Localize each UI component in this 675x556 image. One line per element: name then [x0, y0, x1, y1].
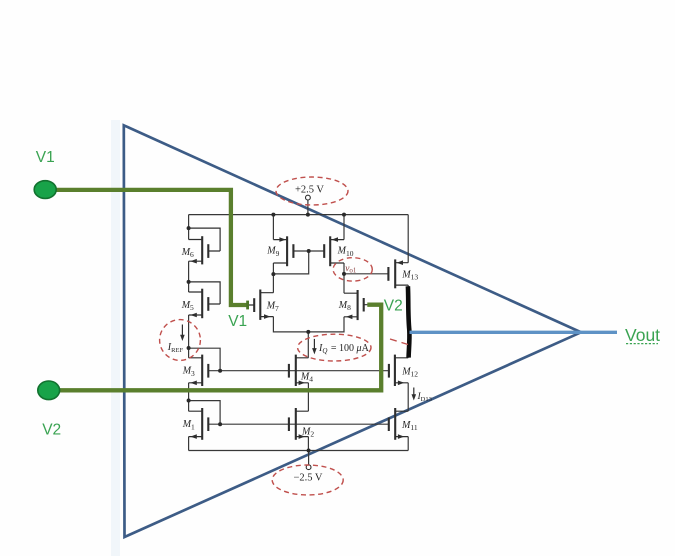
transistor M13: [388, 259, 408, 288]
node gate rail 2: [218, 422, 222, 426]
svg-text:IQ = 100 μA: IQ = 100 μA: [318, 343, 370, 355]
transistor M7: [240, 290, 273, 320]
node tail: [306, 330, 310, 334]
wire vo1 node to M13 gate: [344, 273, 388, 275]
wire M12 source to M11 drain: [407, 383, 409, 411]
transistor M4: [289, 355, 309, 386]
annotation dashes at output node: [390, 339, 408, 345]
background tint strip left of triangle: [111, 120, 120, 556]
wire M13 drain to M12 drain: [407, 285, 409, 358]
transistor M5: [189, 282, 221, 318]
wire M9 M10 gate link: [293, 250, 324, 252]
wire gate rail M3 M4 M12: [208, 370, 389, 372]
wire M3 diode connection: [189, 348, 221, 371]
node rail M9: [271, 213, 275, 217]
wire top +V rail: [189, 214, 409, 216]
transistor M2: [289, 408, 309, 440]
transistor M3: [189, 355, 209, 386]
wire gate rail M1 M2 M11: [208, 423, 388, 425]
svg-text:M9: M9: [266, 246, 279, 258]
annotation ellipse -2.5V: [272, 465, 343, 495]
svg-text:V2: V2: [42, 422, 61, 439]
svg-text:V1: V1: [36, 149, 55, 166]
node M1 diode: [187, 399, 191, 403]
svg-text:M10: M10: [337, 246, 354, 258]
svg-text:M12: M12: [401, 366, 418, 378]
wire M9 source drop: [272, 215, 274, 240]
current arrow ID13: [412, 388, 417, 401]
transistor M1: [189, 408, 209, 440]
svg-text:M1: M1: [182, 419, 195, 431]
node mirror gates: [307, 249, 311, 253]
wire M10 source drop: [343, 215, 345, 240]
svg-text:M2: M2: [301, 426, 314, 438]
wire differential tail: [273, 317, 344, 332]
terminal V1: [34, 181, 56, 199]
op-amp triangle symbol: [124, 125, 581, 537]
terminal circle -2.5V: [306, 465, 311, 470]
wire V1 gate end tick: [246, 301, 249, 310]
svg-text:M5: M5: [181, 300, 194, 312]
node IREF: [187, 346, 191, 350]
wire M11 source drop: [407, 437, 409, 451]
node gate rail 1: [218, 369, 222, 373]
node M6 diode: [187, 226, 191, 230]
terminal V2: [38, 381, 60, 400]
output node thick marker: [408, 286, 410, 357]
wire M4 source to M2 drain: [307, 383, 309, 411]
wire vo1 node down to M8 drain: [343, 263, 345, 293]
wire M9 diode connection: [273, 251, 308, 274]
annotation ellipse +2.5V: [276, 177, 348, 205]
transistor M12: [389, 355, 408, 386]
wire M9 drain to M7 drain: [272, 263, 274, 293]
svg-text:IREF: IREF: [167, 342, 184, 354]
wire +2.5V stub: [307, 200, 309, 215]
current arrow IQ: [312, 339, 317, 355]
annotation ellipse vo1: [333, 258, 372, 281]
svg-text:M3: M3: [182, 366, 195, 378]
wire left bias spine: [188, 215, 190, 451]
transistor M8: [344, 290, 372, 320]
svg-text:Vout: Vout: [625, 325, 660, 345]
svg-text:V2: V2: [384, 298, 403, 315]
current arrow IREF: [180, 325, 185, 342]
terminal circle +2.5V: [306, 195, 311, 200]
transistor M6: [189, 228, 221, 264]
svg-text:V1: V1: [228, 313, 247, 330]
svg-text:ID13: ID13: [417, 392, 432, 403]
wire output blue: [410, 331, 618, 334]
wire M1 diode connection: [189, 401, 221, 425]
wire M2 source drop: [307, 437, 309, 451]
svg-text:M6: M6: [181, 247, 194, 259]
svg-text:M11: M11: [401, 420, 418, 432]
node M9 M7 drains: [271, 272, 275, 276]
svg-text:M4: M4: [300, 371, 313, 383]
annotation ellipse IREF: [160, 320, 201, 361]
node vo1: [342, 272, 346, 276]
wire -2.5V stub: [308, 451, 310, 465]
transistor M9: [273, 236, 293, 266]
svg-text:M7: M7: [266, 301, 279, 313]
node rail M10: [342, 213, 346, 217]
svg-text:vo1: vo1: [345, 264, 357, 275]
svg-text:+2.5 V: +2.5 V: [295, 185, 324, 196]
node M5 diode: [187, 280, 191, 284]
transistor M10: [324, 236, 344, 266]
node bottom supply: [307, 449, 311, 453]
wire V2 input green: [49, 305, 382, 391]
transistor M11: [389, 408, 408, 440]
annotation ellipse IQ: [298, 334, 371, 361]
wire bottom -V rail: [189, 450, 409, 452]
svg-text:M8: M8: [338, 300, 351, 312]
svg-text:−2.5 V: −2.5 V: [293, 473, 322, 484]
node rail supply: [306, 213, 310, 217]
label Vout underline: [626, 343, 658, 345]
svg-text:M13: M13: [401, 269, 418, 281]
wire tail down to M4 drain: [307, 332, 309, 358]
wire right supply drop to M13: [407, 215, 409, 263]
wire V1 input green: [45, 190, 248, 305]
